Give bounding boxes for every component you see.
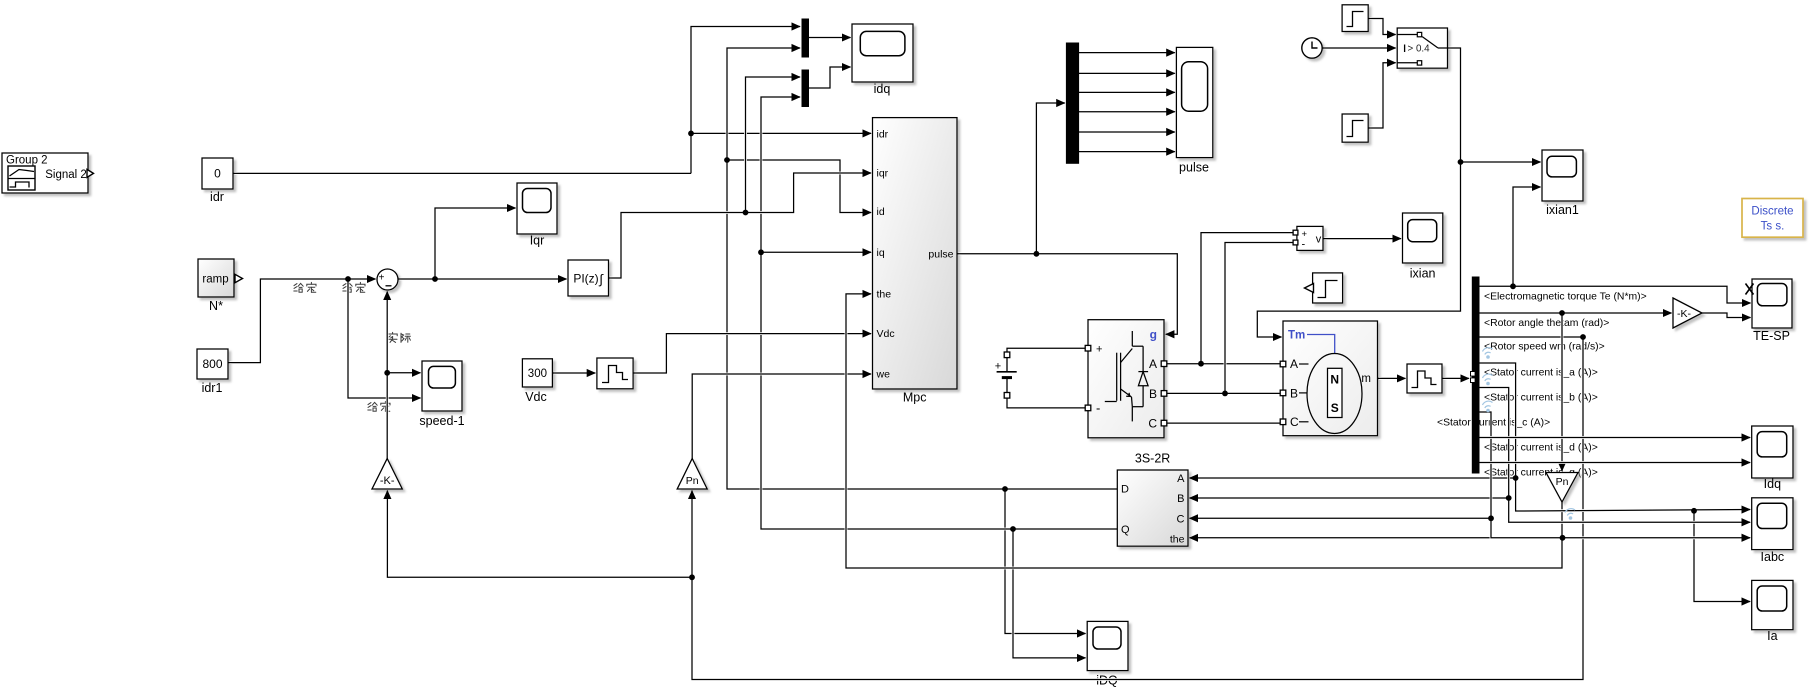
scope TE-SP: [1746, 279, 1793, 343]
svg-text:Vdc: Vdc: [525, 390, 547, 404]
sum junction: [377, 269, 398, 290]
svg-text:Group 2: Group 2: [6, 155, 48, 167]
wire idr constant to Mpc idr / mux1: [235, 172, 690, 175]
svg-text:+: +: [995, 361, 1001, 373]
svg-text:<Stator current is_d (A)>: <Stator current is_d (A)>: [1484, 443, 1598, 454]
svg-text:Discrete: Discrete: [1751, 206, 1793, 218]
scope ixian: [1403, 213, 1443, 281]
wire rate transition 2 to bus selector: [1444, 377, 1468, 380]
svg-text:<Electromagnetic torque Te (N*: <Electromagnetic torque Te (N*m)>: [1484, 292, 1647, 303]
wire PI output to Mpc iqr / mux2: [610, 173, 870, 278]
svg-text:id: id: [877, 206, 885, 218]
svg-text:800: 800: [202, 357, 222, 371]
wire D net (3S-2R D to mux1 / Mpc iqr / iDQ): [727, 48, 1116, 489]
wire DC source to inverter: [1007, 348, 1084, 350]
clock: [1302, 38, 1322, 58]
switch > 0.4: [1397, 28, 1447, 68]
svg-text:N*: N*: [209, 299, 223, 313]
scope speed-1: [419, 361, 464, 428]
svg-text:ramp: ramp: [202, 274, 228, 286]
wire 300 to rate transition 1: [554, 372, 594, 375]
signal logging badge 4: [1565, 509, 1575, 516]
wires mux to idq scope: [810, 36, 849, 39]
svg-text:<Stator current is_c (A)>: <Stator current is_c (A)>: [1437, 418, 1550, 429]
scope iDQ: [1087, 621, 1128, 687]
bus selector: [1471, 277, 1480, 473]
svg-text:-: -: [1096, 401, 1100, 416]
signal logging badge 2: [1483, 374, 1493, 381]
wire switch output to machine Tm / ixian1: [1257, 48, 1460, 337]
svg-text:N: N: [1330, 373, 1339, 387]
wire is_b net: [1481, 388, 1749, 523]
demux (pulse): [1066, 43, 1078, 163]
rate transition 2: [1407, 364, 1442, 393]
wire is_c net: [1481, 412, 1749, 538]
svg-text:<Stator current is_a (A)>: <Stator current is_a (A)>: [1484, 368, 1598, 379]
scope idq: [852, 24, 913, 96]
wire the-line to 3S-2R: [1191, 536, 1561, 539]
wire voltage measurement to ixian: [1325, 237, 1400, 240]
wire machine m to rate transition 2: [1379, 377, 1404, 380]
svg-text:Ts s.: Ts s.: [1761, 221, 1785, 233]
signal logging badge 1: [1483, 348, 1493, 355]
svg-text:Signal 2: Signal 2: [45, 169, 87, 181]
svg-text:speed-1: speed-1: [419, 414, 464, 428]
svg-text:pulse: pulse: [1179, 161, 1209, 175]
svg-text:D: D: [1121, 484, 1129, 496]
svg-text:Iabc: Iabc: [1761, 550, 1785, 564]
rate transition 1: [597, 358, 633, 389]
svg-text:300: 300: [528, 368, 547, 380]
svg-text:g: g: [1150, 327, 1157, 341]
scope Iqr: [517, 183, 557, 248]
svg-text:A: A: [1290, 357, 1298, 371]
wire torque net to TE-SP / ixian1: [1481, 286, 1749, 303]
svg-text:<Rotor speed wm (rad/s)>: <Rotor speed wm (rad/s)>: [1484, 342, 1605, 353]
svg-text:Tm: Tm: [1288, 330, 1305, 342]
svg-text:C: C: [1290, 415, 1299, 429]
svg-text:the: the: [877, 289, 892, 301]
universal bridge inverter: [1085, 320, 1167, 438]
mux 2: [802, 70, 809, 107]
svg-text:idr1: idr1: [202, 381, 223, 395]
svg-text:Pn: Pn: [686, 475, 699, 487]
wires demux to pulse scope: [1080, 51, 1173, 54]
wire Pn down output to 3S-2R the and Mpc the: [846, 294, 1562, 568]
step block 3 (flipped): [1305, 273, 1343, 303]
svg-text:Mpc: Mpc: [903, 391, 927, 405]
wires inverter to machine A B C: [1168, 362, 1278, 365]
label geiding 3: [368, 402, 377, 411]
wires phase taps to voltage measurement: [1201, 233, 1292, 363]
svg-text:m: m: [1361, 373, 1371, 385]
discrete PI controller PI(z): [568, 260, 609, 296]
wire 800 to sum (reference): [230, 279, 374, 363]
wire sum output to PI(z) / Iqr scope: [400, 278, 565, 281]
subsystem 3S-2R: [1117, 452, 1188, 547]
svg-text:-K-: -K-: [380, 475, 395, 487]
gain -K- (speed feedback): [372, 459, 402, 490]
svg-text:pulse: pulse: [928, 248, 953, 260]
step block 2: [1342, 114, 1368, 142]
wire step2 to switch: [1370, 63, 1394, 128]
wire Mpc pulse to inverter g / demux: [959, 254, 1178, 334]
mux 1: [802, 19, 809, 57]
wire clock to switch: [1324, 47, 1394, 50]
svg-text:v: v: [1316, 234, 1322, 246]
svg-text:Vdc: Vdc: [877, 328, 895, 340]
constant 0 (idr): [202, 158, 233, 204]
svg-text:the: the: [1170, 533, 1185, 545]
label shiji: [388, 332, 397, 342]
svg-text:0: 0: [214, 167, 221, 181]
svg-text:S: S: [1331, 401, 1339, 415]
powergui Discrete Ts s.: [1742, 199, 1803, 238]
constant ramp (N*): [198, 259, 243, 313]
wire Pn output to Mpc we: [692, 374, 869, 457]
svg-text:Q: Q: [1121, 524, 1130, 536]
svg-text:B: B: [1149, 387, 1157, 401]
scope pulse: [1176, 47, 1212, 174]
svg-text:iq: iq: [877, 247, 885, 259]
svg-text:-: -: [1302, 239, 1306, 251]
gain Pn (pole pairs, up): [677, 459, 707, 490]
DC voltage source: [995, 352, 1017, 398]
svg-text:ixian: ixian: [1410, 267, 1436, 281]
wire rotor angle theta net to -K- and Pn: [1481, 312, 1670, 315]
constant 800 (idr1): [197, 349, 228, 395]
wire -K- torque gain to TE-SP: [1704, 313, 1749, 318]
gain Pn (down): [1546, 473, 1578, 503]
svg-text:Idq: Idq: [1764, 477, 1781, 491]
svg-text:ixian1: ixian1: [1546, 203, 1579, 217]
svg-text:C: C: [1148, 417, 1157, 431]
svg-text:TE-SP: TE-SP: [1753, 329, 1790, 343]
wire Q net (3S-2R Q to mux2 / Mpc iq / iDQ): [761, 97, 1116, 529]
svg-text:PI(z): PI(z): [573, 272, 598, 286]
svg-text:Pn: Pn: [1556, 476, 1569, 488]
svg-text:<Stator current is_b (A)>: <Stator current is_b (A)>: [1484, 393, 1598, 404]
wire is_q to Idq: [1481, 461, 1749, 464]
scope Idq: [1752, 426, 1793, 491]
svg-text:we: we: [876, 369, 891, 381]
wire is_d to Idq: [1481, 436, 1749, 439]
label geiding 1: [294, 283, 303, 292]
svg-text:idr: idr: [210, 190, 224, 204]
wire rotor speed wm net: [1481, 336, 1582, 339]
signal logging badge 3: [1483, 401, 1493, 408]
svg-text:+: +: [1096, 344, 1102, 356]
wire is_a net: [1481, 363, 1749, 511]
svg-text:Iqr: Iqr: [530, 234, 545, 248]
svg-text:<Rotor angle thetam (rad)>: <Rotor angle thetam (rad)>: [1484, 318, 1609, 329]
svg-text:B: B: [1177, 493, 1184, 505]
label geiding 2: [343, 283, 352, 292]
wire -K- output to sum / speed-1: [386, 293, 389, 457]
svg-text:3S-2R: 3S-2R: [1135, 452, 1170, 466]
svg-text:A: A: [1177, 473, 1185, 485]
signal builder block Group 2 / Signal 2: [2, 153, 94, 193]
svg-text:idq: idq: [874, 82, 891, 96]
svg-text:A: A: [1149, 357, 1157, 371]
scope Ia: [1752, 580, 1793, 643]
svg-text:Ia: Ia: [1767, 629, 1777, 643]
svg-text:-K-: -K-: [1677, 308, 1692, 320]
svg-text:iqr: iqr: [877, 167, 889, 179]
scope ixian1: [1542, 150, 1583, 217]
gain -K- (torque): [1673, 298, 1702, 328]
svg-text:B: B: [1290, 386, 1298, 400]
voltage measurement: [1293, 226, 1323, 250]
svg-text:idr: idr: [877, 128, 889, 140]
wire rate transition 1 to Mpc Vdc: [635, 334, 870, 373]
svg-text:+: +: [379, 273, 385, 284]
svg-text:> 0.4: > 0.4: [1408, 44, 1431, 55]
step block 1: [1342, 5, 1368, 32]
scope Iabc: [1752, 498, 1793, 564]
constant 300 (Vdc): [522, 359, 552, 404]
PMSM machine block: [1280, 321, 1377, 436]
svg-text:C: C: [1177, 513, 1185, 525]
wire step1 to switch: [1370, 19, 1394, 35]
subsystem Mpc: [873, 118, 958, 405]
